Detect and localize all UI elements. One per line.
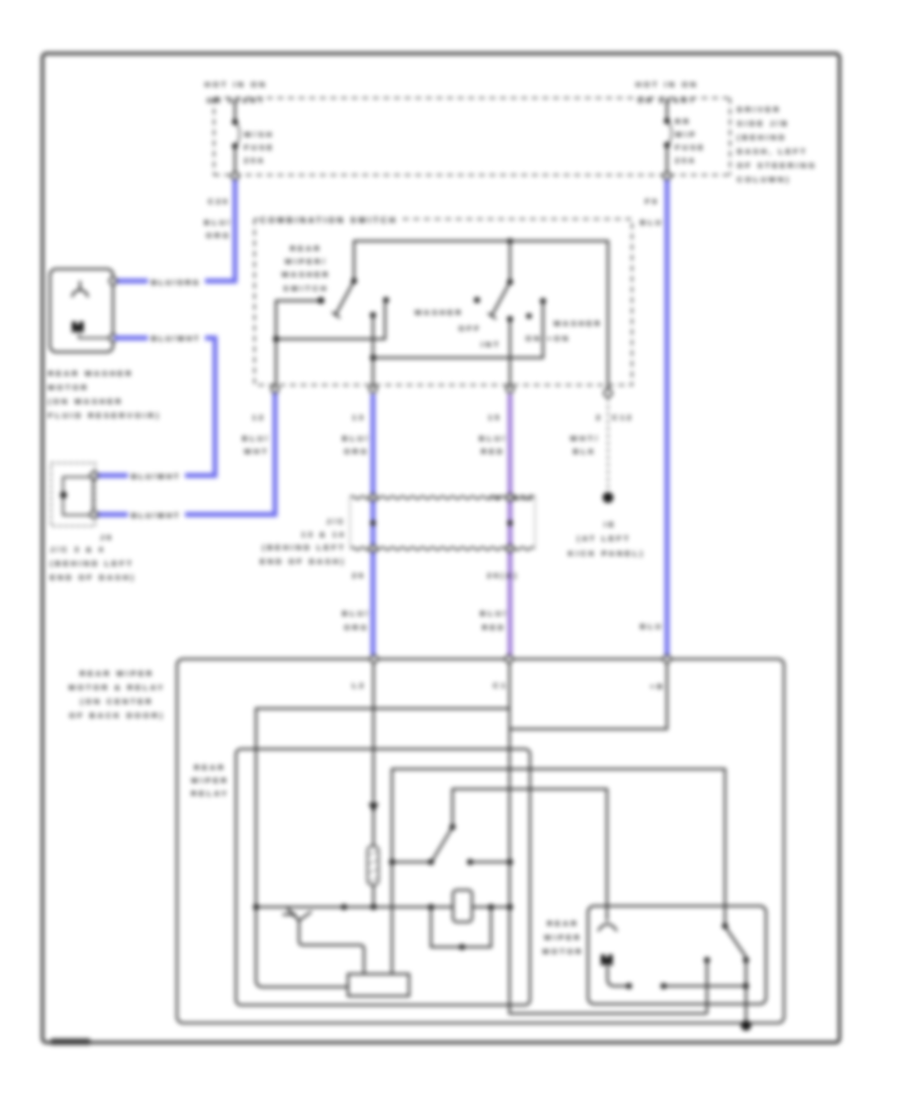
svg-text:END OF DASH): END OF DASH) [260,557,346,566]
svg-text:OF STEERING: OF STEERING [737,161,817,170]
svg-text:BLU/WHT: BLU/WHT [131,472,180,481]
svg-text:20A: 20A [244,156,266,165]
page frame [43,54,840,1043]
control module box [348,974,409,996]
svg-text:BLU/: BLU/ [242,434,270,443]
svg-text:KICK PANEL): KICK PANEL) [568,549,645,558]
svg-text:(BEHIND: (BEHIND [737,133,787,142]
svg-text:IE: IE [604,520,616,529]
label REAR WASHER MOTOR [48,369,161,420]
wire BLU/WHT motor to J/C 3&4 [97,338,215,476]
fuse W/SH 20A [232,100,275,175]
svg-text:WASHER: WASHER [554,319,603,328]
svg-text:HOT IN ON: HOT IN ON [636,80,699,89]
park switch [722,923,749,1025]
svg-text:15: 15 [488,413,502,422]
junction J/C 3 & 4 [51,463,114,542]
svg-text:L2: L2 [352,681,366,690]
svg-text:HOT IN ON: HOT IN ON [205,80,268,89]
svg-text:BLU: BLU [640,218,663,227]
label REAR WIPER MOTOR & RELAY [69,669,166,720]
wire diode loop [431,907,491,947]
svg-text:WHT/: WHT/ [570,434,600,443]
svg-text:C12: C12 [513,493,535,502]
combination switch dashed box [255,219,633,385]
wire relay common to park circuit [392,769,725,974]
svg-text:C20: C20 [208,197,230,206]
rear washer motor [50,269,117,352]
svg-text:WHT: WHT [244,447,269,456]
svg-text:+B: +B [650,682,665,691]
svg-text:OFF: OFF [459,324,482,333]
svg-text:BLU/WHT: BLU/WHT [151,334,200,343]
svg-text:RELAY: RELAY [191,789,229,798]
resistor R1 [453,890,472,922]
rear wiper relay box [236,749,530,1005]
svg-text:13: 13 [352,413,366,422]
svg-text:BLK: BLK [573,447,596,456]
svg-text:J/C 3 & 4: J/C 3 & 4 [50,545,105,554]
wire top rail [354,241,608,389]
svg-text:WASHER: WASHER [415,308,464,317]
wire pin +B branch [510,663,668,729]
arrow on coil wire [369,803,379,813]
node BLU/RED label lower [480,609,508,632]
svg-text:WIPER/: WIPER/ [285,257,328,266]
wire label BLU/WHT [148,333,205,343]
svg-text:RED: RED [481,447,505,456]
connector pins on box top [370,655,377,662]
svg-text:W/SH: W/SH [244,130,274,139]
wire branch C1 to module [256,709,510,988]
fuse RR WIP 20A [664,100,706,175]
svg-text:COMBINATION SWITCH: COMBINATION SWITCH [260,216,398,225]
svg-text:INT: INT [481,340,501,349]
svg-text:BLU/: BLU/ [342,609,370,618]
label J/C 13 & 14 [260,517,346,566]
label REAR WIPER RELAY [191,763,229,798]
svg-text:RED: RED [482,623,506,632]
wire motor terminal to C1 [704,957,710,963]
svg-text:26: 26 [352,571,366,580]
rear wiper motor & relay box [177,659,784,1023]
transistor Q1 [283,909,312,921]
svg-text:ORG: ORG [344,623,369,632]
pin label 2 C12 WHT/BLK [570,413,634,456]
node on contact [370,312,376,318]
svg-text:BLU/ORG: BLU/ORG [151,278,200,287]
wire BLU/RED switch to J/C 13&14 [508,394,513,655]
wire BLU/ORG switch to J/C 13&14 [371,394,376,655]
svg-text:WASHER: WASHER [282,270,331,279]
label DRIVER SIDE J/B [737,105,817,184]
svg-text:IH: IH [490,493,503,502]
wire washer on contact to rail 2 [373,301,543,358]
svg-text:WIP: WIP [675,130,697,139]
svg-text:BLU/: BLU/ [480,609,508,618]
svg-text:FLUID RESERVOIR): FLUID RESERVOIR) [48,411,161,420]
svg-text:MOTOR: MOTOR [48,383,89,392]
node washer out contact [507,316,513,322]
switch arm 1 (rear wiper sw) [318,278,357,318]
svg-text:REAR: REAR [290,244,322,253]
svg-text:ON/+ON: ON/+ON [526,334,571,343]
svg-text:REAR: REAR [194,763,226,772]
svg-text:MOTOR & RELAY: MOTOR & RELAY [69,683,166,692]
wire coil to row [373,885,375,907]
svg-text:M: M [72,319,85,336]
svg-text:REAR: REAR [547,919,579,928]
svg-text:26(A): 26(A) [487,571,519,580]
wire int contact branch [276,303,385,339]
wire on contact to pin 13 [372,315,374,389]
label COMBINATION SWITCH [258,214,400,225]
wire BLU fuse to rear wiper box [665,180,670,655]
motor nozzle arc [598,924,617,931]
wire wiper common to pin 12 [276,301,318,389]
svg-text:J/C: J/C [326,517,346,526]
svg-text:FUSE: FUSE [244,143,275,152]
svg-text:F9: F9 [645,197,659,206]
label REAR WIPER/WASHER SWITCH [282,244,331,293]
resistor row [253,904,513,910]
svg-text:ORG: ORG [344,447,369,456]
svg-text:RR: RR [675,117,691,126]
connector pins 12 13 15 2 [271,385,278,392]
relay contact row [389,824,513,865]
svg-text:SWITCH: SWITCH [283,284,329,293]
svg-text:BLU/: BLU/ [342,434,370,443]
wire label BLU/ORG [148,277,205,287]
wire transistor emitter to module [299,921,364,974]
pin label 12 BLU/WHT [242,413,270,456]
svg-text:(AT LEFT: (AT LEFT [577,534,631,543]
svg-text:2: 2 [596,413,603,422]
junction J/C 13 & 14 wavy connector [350,493,535,552]
node loop junction [459,944,465,950]
svg-text:OF BACK DOOR): OF BACK DOOR) [69,711,165,720]
wire washer out to pin 15 [509,319,511,389]
relay coil [368,846,379,885]
pin label 13 BLU/ORG [342,413,370,456]
svg-text:DASH, LEFT: DASH, LEFT [737,147,808,156]
node washer off contact [474,297,480,303]
svg-text:ORG: ORG [206,231,231,240]
driver side J/B dashed box [214,98,730,175]
connector pin F9 [663,172,670,179]
svg-text:SIDE J/B: SIDE J/B [737,119,789,128]
svg-text:BLU/WHT: BLU/WHT [131,511,180,520]
svg-text:END OF DASH): END OF DASH) [50,573,136,582]
svg-text:REAR WIPER: REAR WIPER [80,669,155,678]
svg-text:BLU/: BLU/ [204,218,232,227]
svg-text:DRIVER: DRIVER [737,105,781,114]
wire WHT/BLK to ground [607,398,609,491]
svg-text:WIPER: WIPER [191,776,229,785]
pin label 15 BLU/RED [479,413,507,456]
wire BLU/WHT J/C 3&4 to switch pin 12 [97,392,275,515]
svg-text:FUSE: FUSE [675,143,706,152]
svg-text:(BEHIND LEFT: (BEHIND LEFT [262,543,346,552]
svg-text:MOTOR: MOTOR [542,947,583,956]
svg-text:J6: J6 [100,533,114,542]
svg-text:WIPER: WIPER [544,933,582,942]
svg-text:BLU: BLU [640,622,663,631]
svg-text:(BEHIND LEFT: (BEHIND LEFT [50,559,134,568]
wire pin C1 down to motor feed [510,663,708,1014]
svg-text:12: 12 [252,413,266,422]
node BLU/ORG label lower [342,609,370,632]
svg-text:13 & 14: 13 & 14 [301,530,346,539]
node washer on contact [540,298,546,304]
wire BLU/ORG fuse to washer motor [114,180,235,281]
svg-text:(ON CENTER: (ON CENTER [80,697,153,706]
wire motor brush 1 [608,966,630,986]
ground junction dot [741,1020,751,1030]
ground IE [568,492,645,558]
node washer stub contact [526,313,532,319]
wire motor brush 2 row [664,985,747,987]
wire relay arm to motor [453,789,608,921]
svg-text:C1: C1 [493,681,508,690]
svg-text:REAR WASHER: REAR WASHER [48,369,134,378]
node int contact [383,297,389,303]
switch arm 2 (washer sw) [488,238,513,319]
rear wiper motor box [588,906,766,1004]
svg-text:C12: C12 [612,413,634,422]
svg-text:(ON WASHER: (ON WASHER [48,397,123,406]
watermark id bar bottom-left [51,1039,90,1046]
connector pin C20 [231,172,238,179]
label REAR WIPER MOTOR [542,919,583,956]
wire pin L2 to relay coil [373,663,375,846]
svg-text:BLU/: BLU/ [479,434,507,443]
svg-text:COLUMN): COLUMN) [737,175,791,184]
label J/C 3 & 4 [50,545,136,582]
svg-text:20A: 20A [675,156,697,165]
